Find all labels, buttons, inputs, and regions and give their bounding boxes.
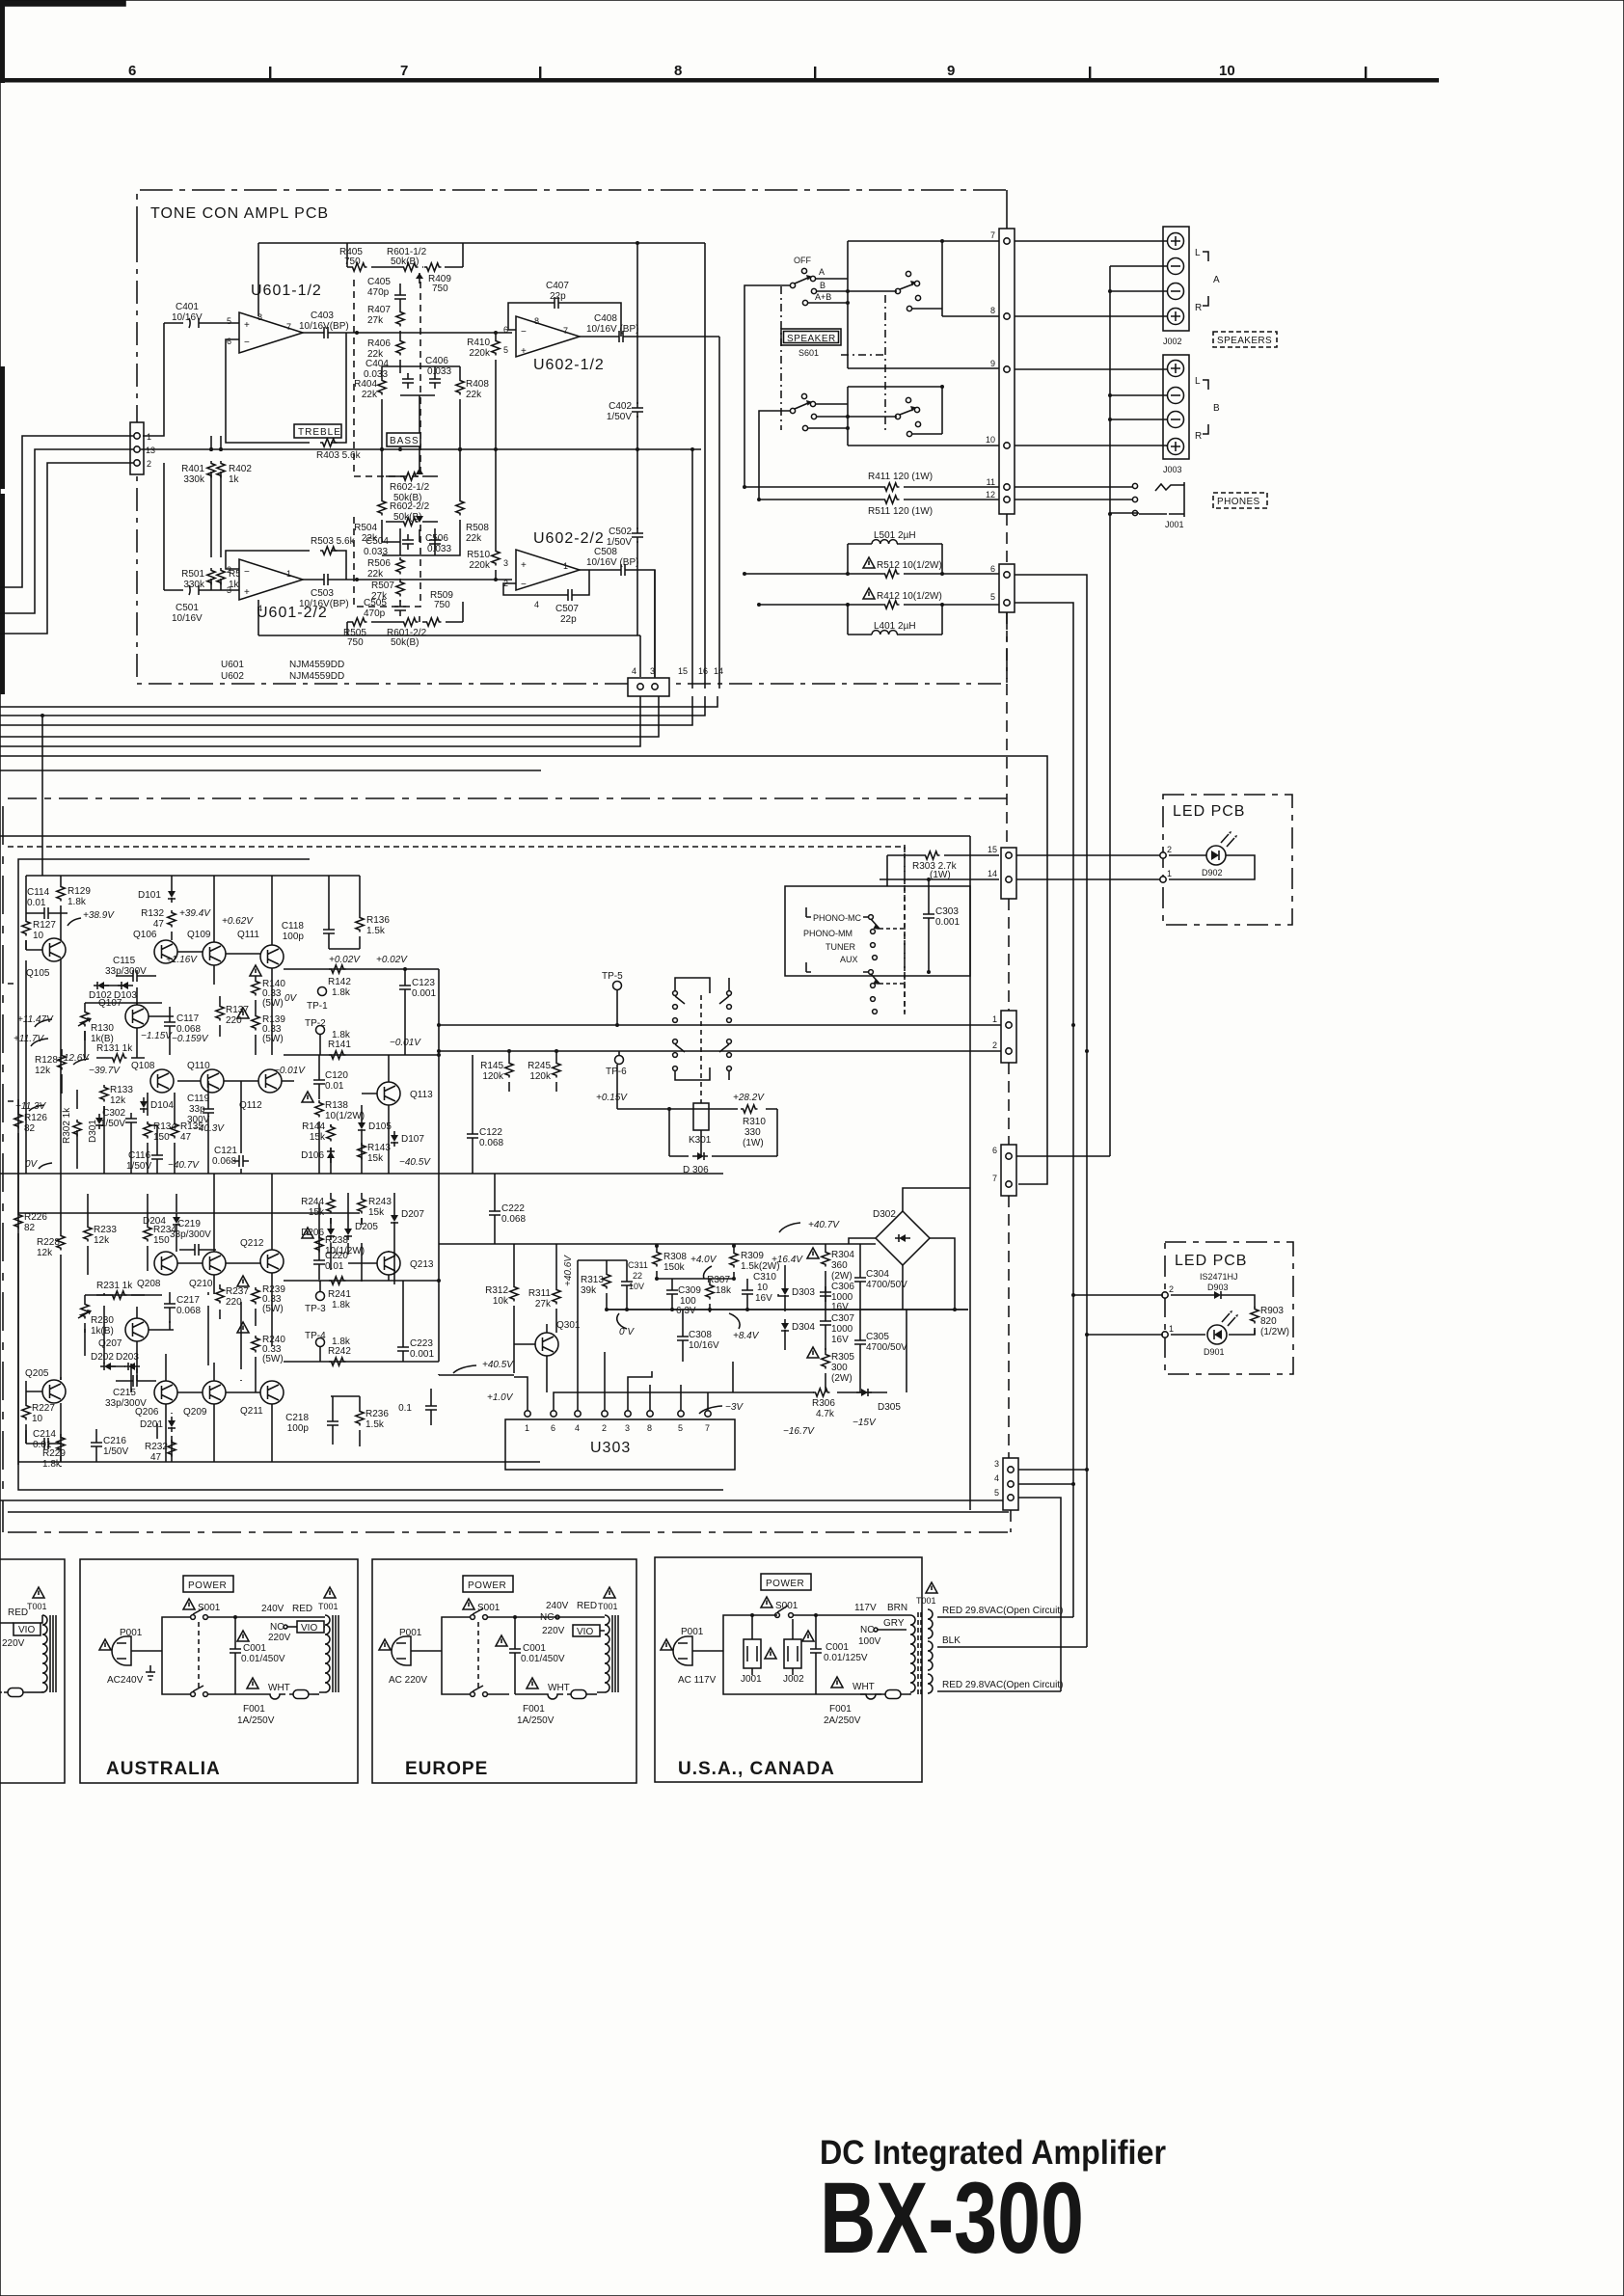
svg-text:2: 2: [1169, 1284, 1174, 1294]
resistor R233: [84, 1194, 118, 1275]
svg-text:15: 15: [678, 666, 688, 676]
svg-text:0.033: 0.033: [427, 366, 451, 377]
svg-text:0.068: 0.068: [479, 1138, 503, 1148]
svg-text:0.01: 0.01: [27, 898, 46, 908]
svg-text:TP-3: TP-3: [305, 1304, 326, 1314]
SPEAKERS label: [1213, 332, 1277, 347]
svg-text:240V: 240V: [261, 1604, 284, 1614]
svg-text:−15V: −15V: [853, 1418, 877, 1428]
svg-text:0.068: 0.068: [212, 1156, 236, 1167]
capacitor C223: [397, 1281, 434, 1362]
svg-text:+4.0V: +4.0V: [690, 1255, 717, 1265]
svg-text:13: 13: [146, 446, 155, 455]
svg-text:0.01/450V: 0.01/450V: [241, 1654, 285, 1664]
svg-text:R144: R144: [302, 1121, 325, 1132]
resistor R501: [181, 498, 215, 590]
svg-text:R226: R226: [24, 1212, 47, 1223]
svg-text:R245: R245: [528, 1061, 551, 1071]
svg-text:1A/250V: 1A/250V: [517, 1715, 555, 1726]
resistor R503 feedback: [226, 536, 359, 581]
svg-text:+16.4V: +16.4V: [771, 1255, 803, 1265]
diodes D206 D205: [301, 1225, 335, 1240]
svg-text:+1.0V: +1.0V: [487, 1392, 514, 1403]
svg-text:10/16V(BP): 10/16V(BP): [299, 321, 349, 332]
svg-text:R903: R903: [1260, 1306, 1284, 1316]
svg-text:Q211: Q211: [240, 1406, 263, 1417]
svg-text:R507: R507: [371, 581, 394, 591]
svg-text:R305: R305: [831, 1352, 854, 1363]
wire rail 1328: [284, 1280, 439, 1282]
svg-text:Q210: Q210: [189, 1279, 213, 1289]
svg-text:−39.7V: −39.7V: [89, 1066, 121, 1076]
svg-text:RED: RED: [292, 1604, 312, 1614]
svg-text:C405: C405: [367, 277, 391, 287]
wires U303 pins: [514, 1352, 733, 1410]
capacitor C120: [313, 1055, 348, 1099]
svg-text:0.001: 0.001: [935, 917, 960, 928]
svg-text:+0.02V: +0.02V: [376, 955, 408, 965]
bottom wires: [0, 1500, 1009, 1512]
switch S601 second wafer L: [906, 271, 910, 276]
resistor R242: [328, 1337, 351, 1365]
transistor Q212: [260, 1250, 284, 1273]
svg-text:12: 12: [986, 490, 995, 500]
svg-text:33p: 33p: [189, 1104, 205, 1115]
pot R602-1/2: [386, 395, 438, 503]
svg-text:L: L: [1195, 376, 1201, 387]
svg-text:J003: J003: [1163, 465, 1182, 474]
svg-text:117V: 117V: [854, 1603, 877, 1613]
ground bus speakers: [1110, 266, 1167, 514]
svg-text:50k(B): 50k(B): [391, 637, 419, 648]
diode D207: [391, 1193, 424, 1284]
svg-text:820: 820: [1260, 1316, 1277, 1327]
svg-text:16: 16: [698, 666, 708, 676]
treble pot dashed frame: [354, 280, 420, 476]
capacitor C121: [212, 1146, 249, 1167]
connector pins 1,2: [1001, 1011, 1016, 1063]
svg-text:100p: 100p: [287, 1423, 310, 1434]
svg-text:9: 9: [947, 63, 955, 79]
capacitor C311: [621, 1260, 648, 1310]
svg-text:WHT: WHT: [548, 1683, 570, 1693]
svg-text:5: 5: [994, 1488, 999, 1498]
svg-text:47: 47: [180, 1132, 192, 1143]
svg-text:10(1/2W): 10(1/2W): [325, 1111, 365, 1121]
svg-text:10: 10: [33, 931, 44, 941]
svg-text:0V: 0V: [25, 1159, 39, 1170]
zener D303: [778, 1265, 815, 1310]
capacitor C122: [467, 1055, 503, 1174]
diodes D202 D203: [91, 1352, 140, 1370]
diode D101: [138, 876, 176, 903]
resistor R231: [96, 1281, 145, 1299]
transistor Q210: [203, 1252, 226, 1275]
long wire: [0, 835, 970, 837]
svg-text:Q207: Q207: [98, 1338, 122, 1349]
svg-text:IS2471HJ: IS2471HJ: [1200, 1272, 1238, 1282]
TREBLE label: [294, 424, 341, 438]
svg-text:22k: 22k: [466, 390, 482, 400]
svg-text:TREBLE: TREBLE: [298, 427, 341, 438]
svg-text:2: 2: [992, 1040, 997, 1050]
left page edge strip: [0, 0, 5, 83]
wire BLK: [937, 1646, 1087, 1648]
svg-text:1/50V: 1/50V: [103, 1446, 128, 1457]
svg-text:J002: J002: [1163, 337, 1182, 346]
svg-text:U601: U601: [221, 660, 244, 670]
svg-text:R236: R236: [365, 1409, 389, 1419]
svg-text:R227: R227: [32, 1403, 55, 1414]
diode D105: [358, 1105, 392, 1174]
svg-text:12k: 12k: [37, 1248, 53, 1258]
svg-text:RED 29.8VAC(Open Circuit): RED 29.8VAC(Open Circuit): [942, 1680, 1063, 1690]
capacitor C401: [143, 302, 239, 436]
svg-text:POWER: POWER: [468, 1580, 506, 1591]
svg-text:C215: C215: [113, 1388, 136, 1398]
wire transistor links ch2: [106, 1263, 260, 1392]
svg-text:R404: R404: [354, 379, 377, 390]
svg-text:−0.159V: −0.159V: [172, 1034, 209, 1044]
svg-text:C507: C507: [555, 604, 579, 614]
svg-text:R311: R311: [528, 1288, 552, 1299]
test point TP-5: [602, 971, 623, 1025]
svg-text:C306: C306: [831, 1282, 854, 1292]
svg-text:VIO: VIO: [301, 1623, 317, 1634]
resistor R305: [822, 1348, 855, 1392]
resistor R139: [237, 1000, 285, 1055]
svg-text:U602: U602: [221, 671, 244, 682]
svg-text:C214: C214: [33, 1429, 56, 1440]
svg-text:100p: 100p: [283, 932, 305, 942]
svg-text:(5W): (5W): [262, 1304, 284, 1314]
wire pin13 bus: [0, 449, 134, 613]
wire bus 16: [0, 696, 705, 716]
resistors R244 R243: [301, 1193, 335, 1225]
resistor R402: [217, 436, 253, 498]
svg-text:BX-300: BX-300: [820, 2162, 1084, 2275]
svg-text:D303: D303: [792, 1287, 815, 1298]
svg-text:(5W): (5W): [262, 1354, 284, 1364]
svg-text:(1/2W): (1/2W): [1260, 1327, 1289, 1337]
svg-text:470p: 470p: [364, 608, 386, 619]
svg-text:0.1: 0.1: [398, 1403, 412, 1414]
svg-text:NC: NC: [860, 1625, 874, 1635]
PCB dash boundary bottom: [8, 1531, 1009, 1533]
top feedback rail: [258, 242, 705, 244]
wire rail 1005: [284, 968, 439, 970]
terminal strip J003: [1163, 355, 1189, 474]
rail mid: [657, 1278, 734, 1280]
svg-text:+8.4V: +8.4V: [733, 1331, 760, 1341]
svg-text:R510: R510: [467, 550, 490, 560]
pot R230: [78, 1295, 114, 1337]
svg-text:R136: R136: [366, 915, 390, 926]
svg-text:Q208: Q208: [137, 1279, 161, 1289]
svg-text:220V: 220V: [542, 1626, 565, 1636]
wire LED2 pin2: [1073, 1294, 1163, 1296]
svg-text:50k(B): 50k(B): [391, 257, 419, 267]
wire R306 row: [733, 1310, 907, 1392]
svg-text:B: B: [820, 281, 826, 290]
svg-text:0.01/125V: 0.01/125V: [824, 1653, 868, 1663]
svg-text:(1W): (1W): [743, 1138, 764, 1148]
svg-text:1.8k: 1.8k: [42, 1459, 62, 1470]
resistor R403 feedback: [226, 331, 362, 461]
resistor R238 lower: [302, 1228, 365, 1256]
capacitor C115: [105, 956, 156, 982]
svg-text:220: 220: [226, 1015, 242, 1026]
svg-text:22: 22: [633, 1271, 642, 1281]
svg-text:16V: 16V: [755, 1293, 772, 1304]
svg-text:B: B: [1213, 403, 1220, 414]
vertical bus V2: [1086, 1051, 1088, 1647]
svg-text:LED PCB: LED PCB: [1173, 803, 1245, 820]
svg-text:+28.2V: +28.2V: [733, 1093, 765, 1103]
svg-text:C001: C001: [243, 1643, 266, 1654]
transistor Q301: [535, 1333, 558, 1356]
svg-text:L401 2µH: L401 2µH: [874, 621, 916, 632]
capacitor C307: [820, 1310, 854, 1350]
wire pin4: [1018, 1483, 1073, 1485]
transistor Q105: [42, 938, 66, 961]
svg-text:R508: R508: [466, 523, 489, 533]
svg-text:Q105: Q105: [26, 968, 50, 979]
svg-text:1.8k: 1.8k: [332, 1300, 351, 1310]
resistor R145: [480, 1051, 513, 1092]
svg-text:PHONO-MC: PHONO-MC: [813, 913, 861, 923]
svg-text:C117: C117: [176, 1013, 200, 1024]
svg-text:12k: 12k: [94, 1235, 110, 1246]
svg-text:D106: D106: [301, 1150, 324, 1161]
rail: [18, 1212, 360, 1214]
capacitor C217: [164, 1292, 201, 1323]
svg-text:R241: R241: [328, 1289, 351, 1300]
wire switch pivot left: [744, 285, 790, 487]
svg-text:AC 220V: AC 220V: [389, 1675, 427, 1686]
svg-text:TP-1: TP-1: [307, 1001, 328, 1012]
capacitor C407 feedback: [508, 281, 621, 337]
svg-text:360: 360: [831, 1260, 848, 1271]
jumpers J001 J002: [744, 1639, 761, 1668]
svg-text:4: 4: [575, 1423, 580, 1433]
op-amp U602-2/2: [503, 530, 605, 609]
svg-text:D302: D302: [873, 1209, 896, 1220]
svg-text:R: R: [1195, 431, 1202, 442]
resistor R133: [100, 1073, 134, 1114]
svg-text:150k: 150k: [663, 1262, 686, 1273]
svg-text:R310: R310: [743, 1117, 766, 1127]
svg-text:T001: T001: [598, 1602, 618, 1611]
svg-text:R401: R401: [181, 464, 204, 474]
svg-text:TONE CON AMPL PCB: TONE CON AMPL PCB: [150, 205, 329, 222]
svg-text:1k: 1k: [229, 474, 240, 485]
resistor R511: [757, 496, 999, 517]
svg-text:22k: 22k: [367, 569, 384, 580]
diode D107: [391, 1131, 424, 1147]
wire output rail: [438, 969, 440, 1362]
svg-text:7: 7: [992, 1174, 997, 1183]
svg-text:1000: 1000: [831, 1324, 853, 1335]
svg-text:U.S.A., CANADA: U.S.A., CANADA: [678, 1759, 835, 1779]
svg-text:J001: J001: [741, 1674, 762, 1685]
svg-text:C216: C216: [103, 1436, 126, 1446]
svg-text:D101: D101: [138, 890, 161, 901]
wire pin6 bus: [1016, 1155, 1110, 1157]
warn R305: [807, 1347, 819, 1358]
svg-text:6: 6: [551, 1423, 555, 1433]
svg-text:J001: J001: [1165, 520, 1184, 529]
svg-text:−: −: [244, 567, 250, 578]
svg-text:R145: R145: [480, 1061, 503, 1071]
SPEAKER label S601: [781, 329, 841, 358]
svg-text:R511 120 (1W): R511 120 (1W): [868, 506, 933, 517]
svg-text:D104: D104: [150, 1100, 174, 1111]
svg-text:+1.16V: +1.16V: [166, 955, 198, 965]
test point TP-4: [305, 1331, 326, 1362]
transistor Q108: [150, 1069, 174, 1093]
svg-text:10/16V (BP): 10/16V (BP): [586, 557, 638, 568]
svg-text:C407: C407: [546, 281, 569, 291]
svg-text:4.7k: 4.7k: [816, 1409, 835, 1419]
box AUSTRALIA: [80, 1559, 358, 1783]
capacitor 0.1: [398, 1389, 437, 1425]
svg-text:+: +: [521, 560, 527, 571]
svg-text:1.5k: 1.5k: [365, 1419, 385, 1430]
svg-text:0.01: 0.01: [325, 1261, 344, 1272]
zener D301: [88, 1114, 103, 1143]
resistor R234: [144, 1194, 177, 1271]
svg-text:6.3V: 6.3V: [676, 1306, 696, 1316]
svg-text:R412 10(1/2W): R412 10(1/2W): [877, 591, 942, 602]
inner dashed boundary: [8, 847, 905, 1014]
resistor R127: [22, 876, 57, 950]
test point TP-3: [305, 1281, 326, 1314]
input selector box: [785, 886, 970, 1013]
transistor Q113: [377, 1082, 400, 1105]
svg-text:R411 120 (1W): R411 120 (1W): [868, 472, 933, 482]
selector wafer contacts R: [673, 1040, 732, 1080]
svg-text:TP-6: TP-6: [606, 1067, 627, 1077]
svg-text:D107: D107: [401, 1134, 424, 1145]
svg-text:C302: C302: [102, 1108, 125, 1119]
svg-text:1.8k: 1.8k: [332, 987, 351, 998]
rail mid-left: [578, 1260, 627, 1379]
svg-text:LED PCB: LED PCB: [1175, 1253, 1247, 1269]
wire pin7 to J002: [1015, 240, 1167, 242]
resistor R144: [302, 1121, 335, 1174]
top rail: [26, 875, 360, 877]
resistor R134: [144, 1121, 177, 1143]
svg-text:18k: 18k: [716, 1285, 732, 1296]
resistor R240: [237, 1309, 285, 1392]
svg-text:R229: R229: [42, 1448, 66, 1459]
svg-text:TP-2: TP-2: [305, 1018, 326, 1029]
svg-text:BLK: BLK: [942, 1635, 961, 1646]
svg-text:−0.01V: −0.01V: [274, 1066, 306, 1076]
svg-text:(2W): (2W): [831, 1373, 853, 1384]
svg-text:10: 10: [757, 1283, 769, 1293]
svg-text:C222: C222: [501, 1203, 525, 1214]
resistor R135: [171, 1121, 204, 1143]
page edge mark top: [0, 0, 125, 6]
wire bus to pin7 lower: [0, 756, 1047, 1184]
svg-text:TP-5: TP-5: [602, 971, 623, 982]
svg-text:R228: R228: [37, 1237, 60, 1248]
svg-text:−3V: −3V: [725, 1402, 744, 1413]
svg-text:+39.4V: +39.4V: [179, 908, 211, 919]
svg-text:R306: R306: [812, 1398, 835, 1409]
wires channel1: [26, 940, 319, 1174]
diode D201: [140, 1417, 176, 1432]
svg-text:EUROPE: EUROPE: [405, 1759, 488, 1779]
resistor R502: [217, 498, 253, 590]
svg-text:1: 1: [1169, 1324, 1174, 1334]
capacitor C219: [170, 1219, 216, 1256]
svg-text:Q110: Q110: [187, 1061, 210, 1071]
capacitor C408: [580, 313, 719, 342]
svg-text:5: 5: [503, 345, 508, 355]
svg-text:S601: S601: [798, 348, 819, 358]
svg-text:D202: D202: [91, 1352, 114, 1363]
resistor R303: [887, 851, 999, 886]
svg-text:22k: 22k: [466, 533, 482, 544]
svg-text:TP-4: TP-4: [305, 1331, 326, 1341]
svg-text:−: −: [521, 580, 527, 590]
capacitors C504 C506: [364, 528, 451, 557]
PCB boundary TONE CON AMPL PCB: [137, 190, 1007, 239]
svg-text:10/16V(BP): 10/16V(BP): [299, 599, 349, 609]
svg-text:D 306: D 306: [683, 1165, 709, 1175]
svg-text:4700/50V: 4700/50V: [866, 1280, 907, 1290]
svg-text:PHONES: PHONES: [1217, 497, 1260, 507]
svg-text:7: 7: [563, 326, 568, 336]
capacitor C218: [285, 1396, 338, 1445]
svg-text:A+B: A+B: [815, 292, 831, 302]
svg-text:2: 2: [602, 1423, 607, 1433]
svg-text:BRN: BRN: [887, 1603, 907, 1613]
svg-text:C218: C218: [285, 1413, 309, 1423]
svg-text:R309: R309: [741, 1251, 764, 1261]
capacitor C117: [164, 1007, 201, 1040]
svg-text:C506: C506: [425, 533, 448, 544]
box USA CANADA: [655, 1557, 937, 1782]
resistor R408: [435, 366, 489, 451]
svg-text:D903: D903: [1207, 1283, 1229, 1292]
B bracket: [1195, 376, 1220, 442]
svg-text:D305: D305: [878, 1402, 901, 1413]
resistor R228: [37, 1174, 65, 1380]
capacitor C222: [489, 1174, 526, 1244]
svg-text:6: 6: [992, 1146, 997, 1155]
svg-text:AC240V: AC240V: [107, 1675, 144, 1686]
svg-text:Q109: Q109: [187, 930, 211, 940]
svg-text:C121: C121: [214, 1146, 237, 1156]
rails: [439, 1244, 968, 1310]
svg-text:9: 9: [990, 359, 995, 368]
svg-text:10/16V (BP): 10/16V (BP): [586, 324, 638, 335]
svg-text:C307: C307: [831, 1313, 854, 1324]
svg-text:R138: R138: [325, 1100, 348, 1111]
svg-text:10/16V: 10/16V: [689, 1340, 719, 1351]
LED D901: [1204, 1310, 1238, 1357]
svg-text:1/50V: 1/50V: [607, 412, 632, 422]
svg-text:D304: D304: [792, 1322, 815, 1333]
resistor R241: [328, 1277, 351, 1310]
svg-text:T001: T001: [916, 1596, 936, 1606]
svg-text:R232: R232: [145, 1442, 168, 1452]
svg-text:Q108: Q108: [131, 1061, 155, 1071]
